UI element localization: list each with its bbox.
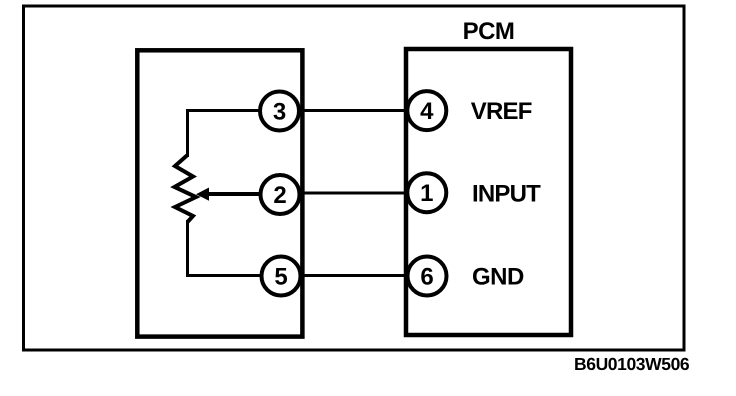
wire pin3 to pin4 (VREF) [280,109,427,112]
label PCM [463,18,515,45]
label INPUT [472,181,541,208]
terminal 2 [261,175,300,214]
terminal 1 [407,173,446,212]
svg-text:5: 5 [274,264,287,291]
wire pin5 to pin6 (GND) [281,274,427,277]
wiper arrowhead [196,188,209,201]
svg-text:2: 2 [273,182,286,209]
terminal 3 [260,92,299,131]
svg-text:INPUT: INPUT [472,181,541,208]
wiper wire from pin 2 [208,192,280,196]
figure number B6U0103W506 [574,354,690,374]
svg-text:GND: GND [472,264,524,291]
sensor box (throttle position sensor) [137,50,302,336]
terminal 5 [262,257,301,296]
label VREF [471,98,532,125]
svg-text:B6U0103W506: B6U0103W506 [574,354,690,374]
svg-text:4: 4 [420,98,434,125]
svg-text:VREF: VREF [471,98,532,125]
potentiometer resistor element [175,155,197,222]
svg-text:6: 6 [420,264,433,291]
border frame [24,6,685,350]
terminal 6 [408,257,447,296]
svg-text:3: 3 [273,99,286,126]
wire pin2 to pin1 (INPUT) [280,192,427,195]
svg-text:PCM: PCM [463,18,515,45]
wire pin3 to potentiometer top [188,111,280,158]
svg-text:1: 1 [420,180,433,207]
terminal 4 [407,91,446,130]
label GND [472,264,524,291]
PCM box [406,49,571,335]
wire potentiometer bottom to pin5 [188,220,282,276]
